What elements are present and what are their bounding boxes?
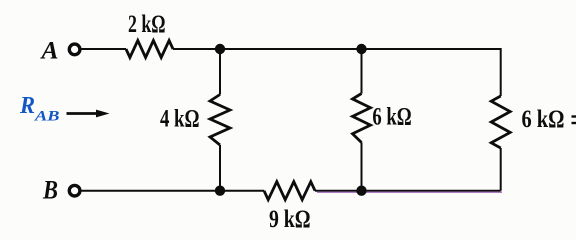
svg-text:9 kΩ: 9 kΩ xyxy=(269,206,311,233)
wire R1 to top-right corner xyxy=(173,48,501,50)
purple underline on bottom-right wire xyxy=(317,191,502,193)
label R_AB (blue) xyxy=(19,93,59,124)
node top 1 xyxy=(215,44,225,54)
svg-text:6 kΩ: 6 kΩ xyxy=(522,106,565,133)
equals sign cut off at right edge xyxy=(572,115,576,124)
wire R2 down to bottom node 1 xyxy=(219,145,221,191)
resistor 6 kOhm (vertical right) xyxy=(491,96,510,148)
node bottom 1 xyxy=(215,186,225,196)
resistor 2 kOhm (top) xyxy=(126,41,173,58)
svg-text:AB: AB xyxy=(34,109,60,125)
node top 2 xyxy=(356,44,366,54)
svg-text:A: A xyxy=(39,38,58,65)
svg-text:2 kΩ: 2 kΩ xyxy=(128,11,166,38)
terminal A xyxy=(69,44,80,55)
wire A to R1 xyxy=(81,48,126,50)
wire B to R5 xyxy=(81,190,264,192)
wire R3 down to bottom node 2 xyxy=(361,143,363,191)
wire R5 to bottom-right corner xyxy=(315,190,501,192)
resistor 6 kOhm (vertical middle) xyxy=(353,94,371,143)
svg-text:R: R xyxy=(19,93,35,119)
resistor 4 kOhm (vertical left) xyxy=(210,95,230,146)
arrow for R_AB xyxy=(67,110,110,118)
svg-text:4 kΩ: 4 kΩ xyxy=(160,105,200,132)
node bottom 2 xyxy=(356,186,366,196)
wire top node 2 down to R3 xyxy=(361,49,363,94)
resistor 9 kOhm (bottom) xyxy=(264,182,315,200)
terminal B xyxy=(69,185,80,196)
svg-text:6 kΩ: 6 kΩ xyxy=(372,104,411,131)
wire R4 down to bottom-right corner xyxy=(500,148,502,191)
wire top node 1 down to R2 xyxy=(219,49,221,95)
svg-text:B: B xyxy=(42,176,58,205)
wire top-right corner down to R4 xyxy=(500,48,502,96)
